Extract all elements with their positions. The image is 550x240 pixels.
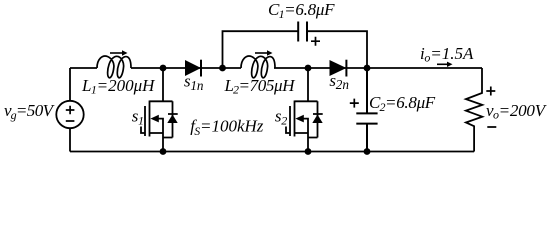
svg-text:s2: s2 (275, 106, 287, 127)
svg-text:vg=50V: vg=50V (4, 101, 56, 122)
svg-text:C1=6.8μF: C1=6.8μF (268, 0, 335, 21)
svg-text:L1=200μH: L1=200μH (81, 76, 156, 97)
svg-text:C2=6.8μF: C2=6.8μF (369, 93, 436, 114)
svg-text:s1: s1 (132, 106, 144, 127)
svg-text:io=1.5A: io=1.5A (420, 44, 474, 64)
svg-text:vo=200V: vo=200V (486, 101, 548, 121)
svg-text:fS=100kHz: fS=100kHz (190, 117, 263, 138)
svg-text:L2=705μH: L2=705μH (224, 76, 297, 97)
